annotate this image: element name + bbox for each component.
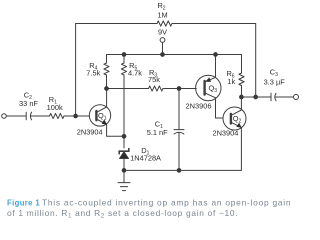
svg-text:2N3904: 2N3904 (77, 128, 103, 137)
svg-text:1k: 1k (227, 77, 235, 86)
svg-text:Q3: Q3 (209, 84, 218, 95)
svg-text:4.7k: 4.7k (128, 69, 142, 78)
svg-text:Q2: Q2 (233, 114, 242, 125)
svg-text:2N3904: 2N3904 (212, 128, 238, 137)
svg-text:3.3 µF: 3.3 µF (264, 78, 286, 87)
svg-text:Q1: Q1 (98, 111, 107, 122)
svg-text:2N3906: 2N3906 (186, 101, 212, 110)
svg-text:This ac-coupled inverting op a: This ac-coupled inverting op amp has an … (42, 198, 291, 208)
svg-text:75k: 75k (148, 75, 160, 84)
svg-text:1M: 1M (157, 11, 167, 20)
svg-text:5.1 nF: 5.1 nF (147, 128, 168, 137)
svg-text:9V: 9V (158, 28, 167, 37)
svg-text:C3: C3 (270, 68, 278, 79)
svg-text:7.5k: 7.5k (86, 69, 100, 78)
svg-text:100k: 100k (47, 103, 63, 112)
svg-text:1N4728A: 1N4728A (130, 154, 161, 163)
svg-text:of 1 million. R1 and R2 set a: of 1 million. R1 and R2 set a closed-loo… (7, 208, 238, 220)
svg-text:33 nF: 33 nF (19, 99, 38, 108)
svg-text:Figure 1: Figure 1 (7, 198, 40, 208)
